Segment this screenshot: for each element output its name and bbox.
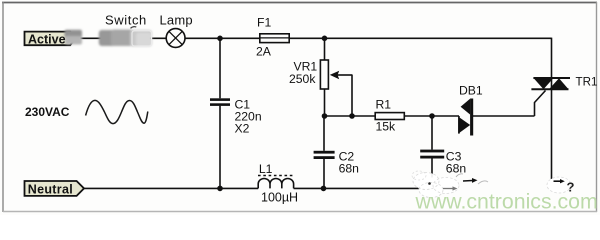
svg-text:250k: 250k bbox=[289, 72, 316, 86]
svg-text:TR1: TR1 bbox=[576, 75, 598, 88]
svg-text:R1: R1 bbox=[376, 97, 392, 111]
svg-text:Neutral: Neutral bbox=[28, 182, 73, 196]
svg-text:68n: 68n bbox=[446, 162, 466, 176]
svg-text:Lamp: Lamp bbox=[160, 13, 193, 28]
svg-text:X2: X2 bbox=[235, 122, 250, 136]
svg-text:15k: 15k bbox=[376, 120, 397, 134]
svg-text:www.cntronics.com: www.cntronics.com bbox=[415, 190, 598, 214]
svg-text:L1: L1 bbox=[259, 162, 273, 176]
svg-text:230VAC: 230VAC bbox=[25, 105, 70, 119]
svg-text:Switch: Switch bbox=[105, 13, 147, 28]
svg-text:100µH: 100µH bbox=[261, 191, 298, 205]
svg-text:F1: F1 bbox=[257, 16, 271, 30]
svg-text:Active: Active bbox=[28, 32, 66, 46]
svg-text:2A: 2A bbox=[256, 45, 272, 59]
svg-text:68n: 68n bbox=[339, 162, 359, 176]
svg-text:DB1: DB1 bbox=[459, 84, 483, 98]
